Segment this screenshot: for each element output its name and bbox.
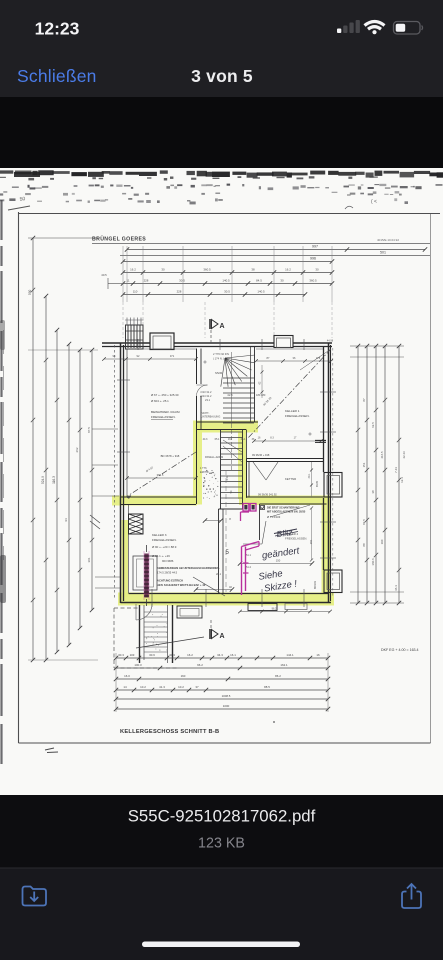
svg-text:3 von 5: 3 von 5 [191,66,253,86]
svg-text:16: 16 [316,653,320,657]
svg-text:16.1: 16.1 [230,653,236,657]
svg-text:65.1: 65.1 [215,438,220,441]
svg-text:30.6: 30.6 [149,653,155,657]
svg-text:997: 997 [312,245,318,249]
svg-text:160: 160 [181,674,186,678]
svg-text:40.3: 40.3 [169,653,175,657]
svg-text:110: 110 [133,290,138,294]
svg-text:162.1: 162.1 [280,663,288,667]
svg-text:40.1: 40.1 [308,473,311,478]
svg-text:88: 88 [362,543,366,547]
svg-text:174.5 28/35 44.5: 174.5 28/35 44.5 [157,571,178,575]
svg-text:123 KB: 123 KB [198,836,245,852]
svg-text:99 36/36 541.92: 99 36/36 541.92 [258,493,277,497]
svg-text:360.5: 360.5 [203,268,211,272]
svg-text:87.5: 87.5 [87,427,91,433]
svg-text:BD 3678 + 918: BD 3678 + 918 [161,454,180,458]
svg-text:12:23: 12:23 [35,19,80,39]
svg-text:KELLER 1: KELLER 1 [285,409,300,413]
svg-text:100.3: 100.3 [134,663,142,667]
svg-text:86/103: 86/103 [313,580,317,588]
svg-text:23.1: 23.1 [205,398,211,402]
svg-text:( 174 N. ): ( 174 N. ) [213,357,224,361]
svg-text:1008.5: 1008.5 [222,694,231,698]
svg-text:N52M: N52M [215,371,223,375]
svg-text:Ø 604 +- 25.1: Ø 604 +- 25.1 [151,399,169,403]
svg-text:16.0: 16.0 [124,674,130,678]
svg-text:4015/E.10.04.92: 4015/E.10.04.92 [377,238,399,242]
svg-text:30: 30 [280,279,284,283]
svg-text:S55C-925102817062.pdf: S55C-925102817062.pdf [128,807,316,826]
svg-text:Schließen: Schließen [17,66,97,86]
svg-text:228: 228 [177,290,182,294]
svg-text:16.2: 16.2 [187,653,193,657]
svg-text:42.5: 42.5 [227,393,233,397]
svg-text:UNTERBAUUNG: UNTERBAUUNG [201,416,220,419]
svg-text:16.2: 16.2 [130,268,136,272]
svg-text:301: 301 [87,557,91,562]
svg-text:Ø 71.5/103: Ø 71.5/103 [267,515,281,519]
svg-text:51.1: 51.1 [246,554,251,557]
svg-text:10.2: 10.2 [140,685,146,689]
svg-text:151: 151 [362,462,366,467]
svg-text:MIT ABGESLAGENEN 5/N. 28/35: MIT ABGESLAGENEN 5/N. 28/35 [267,511,306,514]
svg-text:( <: ( < [371,199,377,205]
svg-text:228: 228 [144,279,149,283]
svg-text:EM/TM: EM/TM [200,470,208,474]
svg-text:96.2: 96.2 [197,663,203,667]
svg-text:FREIGELASSEN.: FREIGELASSEN. [151,415,176,419]
svg-text:82.5: 82.5 [362,519,366,525]
svg-text:96.2: 96.2 [272,608,277,611]
svg-text:501: 501 [380,251,386,255]
svg-text:BRÜNGEL GOERES: BRÜNGEL GOERES [92,236,146,243]
svg-text:KETTNR: KETTNR [285,477,296,481]
svg-text:16.2: 16.2 [285,268,291,272]
svg-text:9D N686: 9D N686 [162,559,174,563]
svg-text:161: 161 [228,438,233,441]
svg-text:30: 30 [315,268,319,272]
svg-text:84.5: 84.5 [256,279,262,283]
svg-text:391: 391 [309,539,313,544]
svg-text:996: 996 [310,257,316,261]
svg-text:i 014 31.2: i 014 31.2 [200,394,212,398]
svg-text:Ø 90 +- +20 = 88.9: Ø 90 +- +20 = 88.9 [152,545,177,549]
svg-text:12.4: 12.4 [400,477,404,483]
svg-text:262: 262 [75,447,79,452]
svg-text:416.5: 416.5 [380,451,384,459]
svg-text:62.5: 62.5 [371,422,375,428]
svg-text:41.3: 41.3 [159,685,165,689]
svg-text:37: 37 [195,685,199,689]
svg-text:590: 590 [28,289,32,295]
svg-text:88.5: 88.5 [264,685,270,689]
svg-text:14: 14 [123,685,127,689]
svg-text:DIE ERST SCHAMTIERUNG: DIE ERST SCHAMTIERUNG [267,507,300,510]
svg-text:FREIGELASSEN.: FREIGELASSEN. [285,414,310,418]
svg-text:1 T76: 1 T76 [200,466,207,470]
svg-text:36.3: 36.3 [394,585,398,591]
svg-text:30.5: 30.5 [179,279,185,283]
svg-text:FREIGELASSEN.: FREIGELASSEN. [152,538,177,542]
svg-text:103: 103 [130,653,135,657]
svg-text:144.1: 144.1 [286,653,294,657]
svg-text:38: 38 [251,268,255,272]
svg-text:DKF EG + 4.00 = 163.4: DKF EG + 4.00 = 163.4 [381,648,419,652]
svg-text:85.95: 85.95 [316,480,319,487]
svg-text:A: A [220,323,225,330]
svg-text:2 T76 N2 3/N: 2 T76 N2 3/N [213,352,229,356]
svg-text:360.5: 360.5 [309,279,317,283]
svg-text:140.5: 140.5 [222,279,230,283]
svg-text:28.1: 28.1 [216,572,222,576]
svg-text:34.3: 34.3 [217,653,223,657]
svg-text:ACHTUNG ESTRICH: ACHTUNG ESTRICH [157,579,183,583]
svg-text:ABMESSUNGEN AB UNTERLEGSCHARFB: ABMESSUNGEN AB UNTERLEGSCHARFBODEN. [157,566,220,570]
svg-text:KELLER 3: KELLER 3 [152,533,167,537]
svg-text:371: 371 [170,354,175,358]
svg-text:30.5: 30.5 [224,290,230,294]
svg-text:44.98: 44.98 [327,340,334,343]
svg-text:i 013 31.2: i 013 31.2 [200,390,212,394]
svg-text:160.6: 160.6 [371,558,375,566]
svg-text:190: 190 [380,539,384,544]
svg-text:7.43: 7.43 [394,467,398,473]
svg-text:8.3: 8.3 [270,437,274,440]
svg-text:86.2: 86.2 [275,674,281,678]
svg-text:116.3: 116.3 [52,476,56,484]
svg-text:1000: 1000 [223,704,230,708]
svg-text:KELLERGESCHOSS SCHNITT B-B: KELLERGESCHOSS SCHNITT B-B [120,729,219,735]
svg-text:PANELL-42/EM: PANELL-42/EM [205,455,223,459]
svg-text:87: 87 [362,398,366,402]
svg-text:94: 94 [64,518,68,522]
svg-text:HE'E SCHLIESST WK/TS BA BAF: HE'E SCHLIESST WK/TS BA BAF + 43 [157,583,206,587]
svg-text:99 36/36 + 918: 99 36/36 + 918 [252,453,270,457]
svg-text:44.3: 44.3 [203,438,208,441]
svg-text:140.5: 140.5 [257,290,265,294]
svg-text:BEWAHRER. RAUM: BEWAHRER. RAUM [151,410,180,414]
svg-text:Ø 67 +- 250 + 325.30: Ø 67 +- 250 + 325.30 [151,393,179,397]
svg-text:42.43: 42.43 [402,451,406,459]
svg-text:10.2: 10.2 [178,685,184,689]
svg-text:51.4: 51.4 [246,566,251,569]
svg-text:40.5: 40.5 [101,273,107,277]
svg-text:4 23: 4 23 [226,475,229,480]
svg-text:A: A [220,633,225,640]
svg-text:180 180: 180 180 [256,393,266,397]
svg-text:30: 30 [161,268,165,272]
svg-text:30.3: 30.3 [118,653,124,657]
svg-text:524.9: 524.9 [41,476,45,484]
svg-text:45.1: 45.1 [241,438,246,441]
svg-text:38: 38 [371,490,375,494]
